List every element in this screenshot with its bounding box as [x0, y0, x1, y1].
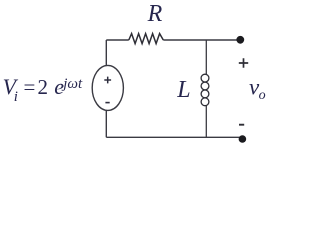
wire source top lead [105, 40, 107, 66]
wire source bottom lead [105, 110, 107, 137]
wire top-right segment [163, 39, 240, 41]
svg-text:i: i [14, 89, 18, 105]
wire bottom [106, 136, 242, 138]
source plus mark [104, 77, 111, 84]
node terminal top dot [236, 36, 244, 44]
svg-text:R: R [147, 1, 163, 27]
wire inductor branch [205, 40, 207, 137]
label L [176, 77, 190, 103]
output plus mark [239, 58, 248, 67]
svg-text:jωt: jωt [61, 76, 83, 92]
svg-text:L: L [176, 77, 190, 103]
svg-text:=: = [24, 75, 36, 99]
node terminal bottom dot [239, 135, 247, 143]
inductor L coil [201, 74, 209, 106]
output minus mark [239, 124, 244, 126]
label R [147, 1, 163, 27]
svg-text:2: 2 [38, 75, 49, 99]
source minus mark [105, 102, 109, 104]
resistor R [129, 34, 164, 44]
label vo [249, 75, 266, 104]
wire top-left segment [106, 39, 129, 41]
source Vi ellipse [92, 65, 123, 110]
svg-text:o: o [259, 88, 266, 103]
label Vi = 2 e^jwt [3, 74, 83, 105]
